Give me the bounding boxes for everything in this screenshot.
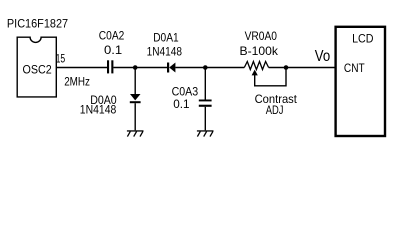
junction node A dot [133,65,138,70]
svg-text:Vo: Vo [315,48,330,65]
capacitor C0A3 [199,100,212,107]
wire D0A0 to ground [134,103,136,130]
svg-text:2MHz: 2MHz [64,75,90,89]
svg-text:VR0A0: VR0A0 [245,29,278,43]
svg-text:15: 15 [56,51,66,65]
wire node B down to C0A3 [204,68,206,100]
diode D0A1 [167,63,175,73]
junction node B dot [203,65,208,70]
diode D0A0 [130,94,141,103]
svg-text:1N4148: 1N4148 [147,44,183,58]
svg-text:0.1: 0.1 [173,97,190,111]
ground symbol (D0A0) [127,130,144,136]
svg-text:ADJ: ADJ [266,103,284,117]
wire C0A2 to D0A1 [113,67,167,69]
LCD module box [336,27,385,136]
svg-text:0.1: 0.1 [104,43,123,57]
svg-text:OSC2: OSC2 [23,63,52,77]
svg-text:PIC16F1827: PIC16F1827 [7,16,68,30]
svg-text:B-100k: B-100k [240,44,279,58]
svg-text:C0A2: C0A2 [99,29,125,43]
wire D0A1 to VR0A0 [175,67,244,69]
wire node A down to D0A0 [134,68,136,95]
wire C0A3 to ground [204,107,206,131]
wire VR0A0 to LCD [269,67,336,69]
junction node Vo dot [284,65,289,70]
capacitor C0A2 [107,60,113,73]
VR0A0 wiper loop wire [255,68,286,86]
svg-text:D0A1: D0A1 [153,31,179,45]
svg-text:LCD: LCD [352,31,374,45]
svg-text:1N4148: 1N4148 [80,102,117,116]
wire OSC2 pin to C0A2 [56,67,107,69]
svg-text:CNT: CNT [344,61,365,75]
VR0A0 wiper arrow [252,70,258,76]
IC U1 PIC16F1827 box [17,37,56,97]
potentiometer VR0A0 zigzag [244,62,268,70]
ground symbol (C0A3) [197,130,214,136]
